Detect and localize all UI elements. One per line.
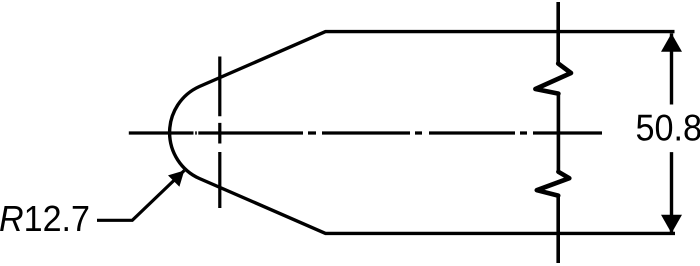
svg-text:R12.7: R12.7 xyxy=(0,198,90,239)
svg-text:50.8: 50.8 xyxy=(636,108,700,149)
